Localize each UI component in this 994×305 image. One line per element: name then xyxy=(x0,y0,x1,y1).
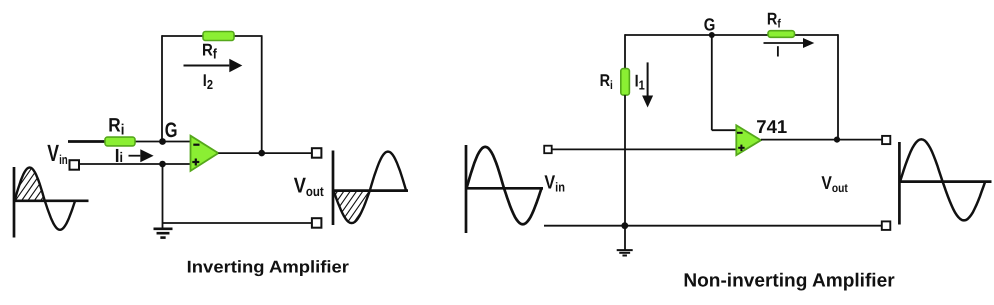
svg-text:Vin: Vin xyxy=(47,140,67,167)
svg-text:741: 741 xyxy=(756,116,787,137)
svg-text:Inverting Amplifier: Inverting Amplifier xyxy=(187,258,350,277)
svg-text:Vin: Vin xyxy=(544,172,565,194)
svg-text:G: G xyxy=(704,14,716,34)
svg-text:Vout: Vout xyxy=(294,174,324,200)
svg-text:Ri: Ri xyxy=(600,71,613,92)
svg-text:Vout: Vout xyxy=(821,172,847,195)
svg-text:Ii: Ii xyxy=(115,146,123,167)
svg-text:Non-inverting Amplifier: Non-inverting Amplifier xyxy=(683,271,895,292)
svg-text:I2: I2 xyxy=(203,71,213,92)
svg-text:I: I xyxy=(776,44,780,61)
svg-text:Rf: Rf xyxy=(202,40,217,61)
svg-text:I1: I1 xyxy=(635,71,645,92)
svg-text:Rf: Rf xyxy=(767,10,782,31)
svg-text:Ri: Ri xyxy=(108,115,124,139)
svg-text:G: G xyxy=(165,119,178,142)
